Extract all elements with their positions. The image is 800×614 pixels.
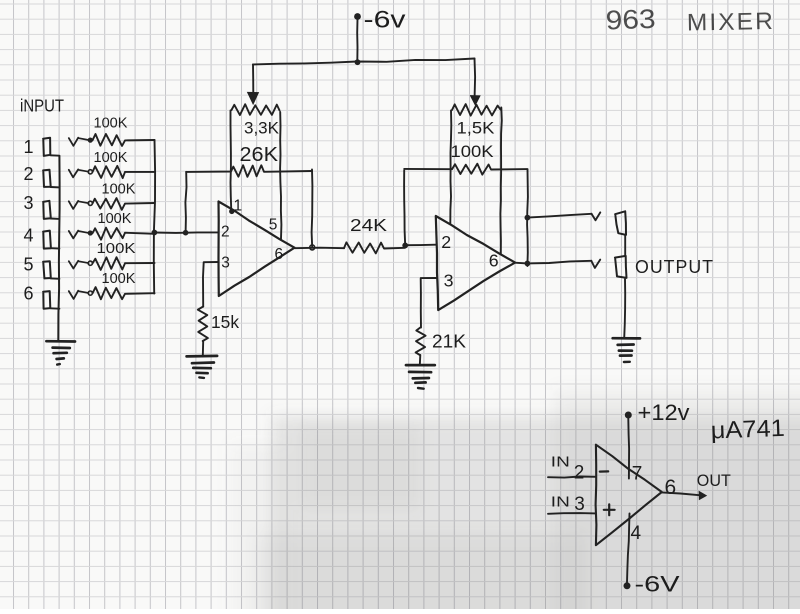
potentiometer P1 3,3K <box>232 104 280 115</box>
wire P1 left terminal to pin1 <box>230 111 233 212</box>
resistor R8 100K feedback <box>404 164 527 175</box>
wire P2 right terminal down <box>500 108 501 254</box>
op-amp U2 <box>436 216 515 310</box>
wire between output jacks <box>624 235 626 256</box>
node input 5 <box>88 261 92 265</box>
svg-text:24K: 24K <box>350 215 387 235</box>
wiper arrow P1 <box>248 92 259 104</box>
wire P1 right terminal to pin5 <box>280 112 281 239</box>
svg-text:6: 6 <box>24 283 34 303</box>
svg-text:OUTPUT: OUTPUT <box>635 257 714 277</box>
node U1 pin1 <box>229 209 234 214</box>
svg-text:MIXER: MIXER <box>687 8 775 37</box>
wire U2 pin3 input <box>421 278 437 328</box>
wire input ground bus <box>58 156 59 341</box>
connector mark lower output <box>591 260 600 268</box>
svg-text:100K: 100K <box>94 149 128 166</box>
junction U2 output node <box>525 261 531 267</box>
svg-text:3: 3 <box>24 193 34 213</box>
jack lower output <box>615 256 627 278</box>
svg-text:1: 1 <box>234 198 243 215</box>
svg-text:3: 3 <box>444 271 454 291</box>
wire IN3 <box>548 512 596 515</box>
svg-text:3: 3 <box>221 254 230 271</box>
svg-text:4: 4 <box>631 523 642 544</box>
wire summing bus <box>154 140 155 294</box>
svg-text:100K: 100K <box>451 142 495 161</box>
svg-text:IN: IN <box>551 494 570 511</box>
wire +12V to pin7 <box>627 419 630 479</box>
svg-text:100K: 100K <box>98 210 132 227</box>
wire IN2 <box>548 477 596 478</box>
jack J5 input 5 <box>43 261 51 278</box>
wire connector to node 1 <box>78 138 88 140</box>
wire U2 output to lower jack <box>515 261 592 264</box>
node input 1 <box>88 138 93 143</box>
ground input bus <box>46 340 75 343</box>
node input 4 <box>88 230 93 235</box>
svg-text:6: 6 <box>489 251 499 271</box>
svg-text:2: 2 <box>441 232 451 252</box>
resistor R9 15k <box>198 307 208 342</box>
wire output jacks to ground <box>624 279 625 338</box>
svg-text:963: 963 <box>605 4 656 36</box>
connector mark input 5 <box>69 261 78 269</box>
resistor R7 26K <box>186 165 312 177</box>
wire feedback to output riser <box>526 169 529 266</box>
svg-text:-6V: -6V <box>635 572 680 597</box>
ground below 21K <box>406 364 435 367</box>
wire upper output tap <box>527 214 591 218</box>
terminal +12V <box>625 412 632 419</box>
resistor R2 100K <box>93 166 155 178</box>
connector mark input 2 <box>69 169 78 177</box>
svg-text:100K: 100K <box>102 180 136 197</box>
potentiometer P2 1,5K <box>452 104 501 116</box>
resistor R1 100K <box>93 134 155 146</box>
connector mark input 3 <box>69 201 78 209</box>
svg-text:2: 2 <box>574 463 585 484</box>
svg-text:2: 2 <box>24 164 34 184</box>
wire jack J2 to ground bus <box>51 186 60 188</box>
wire input node riser <box>404 170 405 245</box>
connector mark input 4 <box>69 231 78 239</box>
op-amp U1 <box>219 202 295 297</box>
connector mark input 1 <box>69 138 78 146</box>
svg-text:4: 4 <box>24 226 34 246</box>
svg-text:100K: 100K <box>94 115 128 132</box>
wire jack J6 to ground bus <box>51 307 60 309</box>
node -6V supply terminal <box>354 13 361 20</box>
wire rail drop to pot P1 wiper <box>252 65 254 94</box>
svg-text:-6v: -6v <box>364 7 407 34</box>
wire -6V vertical drop <box>356 19 358 62</box>
junction U1 output node <box>310 245 315 250</box>
wire jack J5 to ground bus <box>51 277 60 279</box>
wire 26K to output node <box>311 170 314 248</box>
node input 6 <box>88 291 92 295</box>
wire U1 pin3 input <box>203 262 219 307</box>
jack upper output <box>615 211 626 235</box>
svg-text:100K: 100K <box>97 240 136 257</box>
label U3 plus input <box>604 509 615 511</box>
junction feedback tap <box>183 230 189 236</box>
wire connector to node 2 <box>78 170 88 172</box>
connector mark upper output <box>592 212 601 220</box>
jack J3 input 3 <box>43 201 51 219</box>
svg-text:3: 3 <box>574 494 585 515</box>
junction -6V rail <box>355 59 361 65</box>
jack J6 input 6 <box>43 291 50 309</box>
svg-text:1: 1 <box>24 137 34 157</box>
wire jack J1 to ground bus <box>51 154 60 156</box>
wire rail drop to pot P2 wiper <box>474 59 477 97</box>
svg-text:OUT: OUT <box>697 472 731 490</box>
svg-text:IN: IN <box>551 454 570 471</box>
wire jack J3 to ground bus <box>51 218 60 220</box>
arrow U3 output <box>699 491 708 501</box>
connector mark input 6 <box>69 291 78 299</box>
wire pin4 to -6V <box>627 514 630 583</box>
wire summing node to U1 pin2 <box>154 231 218 234</box>
resistor R4 100K <box>93 228 155 240</box>
svg-text:100K: 100K <box>102 270 136 287</box>
junction U2 input node <box>402 243 408 249</box>
svg-text:2: 2 <box>221 224 230 241</box>
svg-text:iNPUT: iNPUT <box>20 96 64 116</box>
svg-text:21K: 21K <box>432 331 467 352</box>
svg-text:15k: 15k <box>211 312 239 332</box>
svg-text:26K: 26K <box>240 144 279 166</box>
junction summing node <box>152 230 158 236</box>
svg-text:1,5K: 1,5K <box>457 119 496 138</box>
wire feedback riser <box>185 172 186 233</box>
wire U3 output <box>662 492 700 495</box>
wire connector to node 5 <box>78 261 88 263</box>
svg-text:6: 6 <box>275 246 284 263</box>
label U3 minus input <box>600 470 608 472</box>
svg-text:μA741: μA741 <box>710 415 785 445</box>
resistor R6 100K <box>93 287 155 299</box>
wire U2 pin2 input <box>405 244 436 247</box>
svg-text:6: 6 <box>665 476 677 499</box>
node input 2 <box>88 170 92 174</box>
resistor R3 100K <box>93 198 155 210</box>
ground below 15k <box>187 355 218 358</box>
wire connector to node 3 <box>78 201 88 203</box>
svg-text:5: 5 <box>24 255 34 275</box>
wire jack J4 to ground bus <box>51 247 60 249</box>
scan shadow bottom right <box>232 390 800 614</box>
svg-text:3,3K: 3,3K <box>244 119 280 138</box>
wire connector to node 6 <box>78 291 88 293</box>
resistor R11 21K <box>416 328 426 356</box>
wire connector to node 4 <box>78 231 88 233</box>
wire ground stem 21K <box>419 355 422 365</box>
resistor R5 100K <box>93 257 155 270</box>
svg-text:+12v: +12v <box>638 400 690 425</box>
jack J4 input 4 <box>43 231 51 249</box>
jack J2 input 2 <box>43 170 51 187</box>
junction upper output tap <box>525 215 531 221</box>
wire -6V horizontal rail <box>253 59 475 65</box>
terminal -6V <box>624 582 631 589</box>
ground output <box>613 337 640 340</box>
resistor R10 24K <box>344 242 405 253</box>
wire P2 left terminal down <box>450 111 451 225</box>
wiper arrow P2 <box>471 96 480 105</box>
op-amp U3 <box>596 445 662 546</box>
node input 3 <box>88 201 92 205</box>
wire ground stem 15k <box>202 341 204 356</box>
wire U1 output <box>295 247 344 250</box>
jack J1 input 1 <box>43 138 50 156</box>
svg-text:5: 5 <box>269 217 278 234</box>
